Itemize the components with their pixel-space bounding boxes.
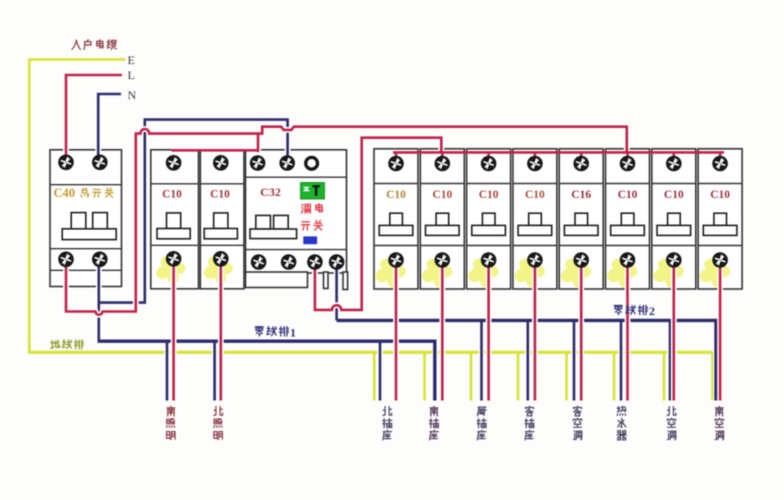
svg-text:C10: C10 <box>479 189 499 201</box>
svg-text:C10: C10 <box>664 189 684 201</box>
svg-text:C10: C10 <box>386 189 406 201</box>
svg-text:C40: C40 <box>54 186 76 200</box>
svg-text:2: 2 <box>649 304 655 318</box>
svg-text:L: L <box>128 68 135 82</box>
svg-text:C10: C10 <box>162 189 182 201</box>
svg-text:C16: C16 <box>571 189 591 201</box>
svg-text:C10: C10 <box>432 189 452 201</box>
svg-text:1: 1 <box>290 326 296 340</box>
svg-text:C10: C10 <box>618 189 638 201</box>
svg-text:E: E <box>128 53 135 67</box>
svg-text:N: N <box>128 88 137 102</box>
svg-text:C10: C10 <box>525 189 545 201</box>
svg-text:C10: C10 <box>710 189 730 201</box>
svg-text:C32: C32 <box>260 185 281 199</box>
svg-text:C10: C10 <box>210 189 230 201</box>
